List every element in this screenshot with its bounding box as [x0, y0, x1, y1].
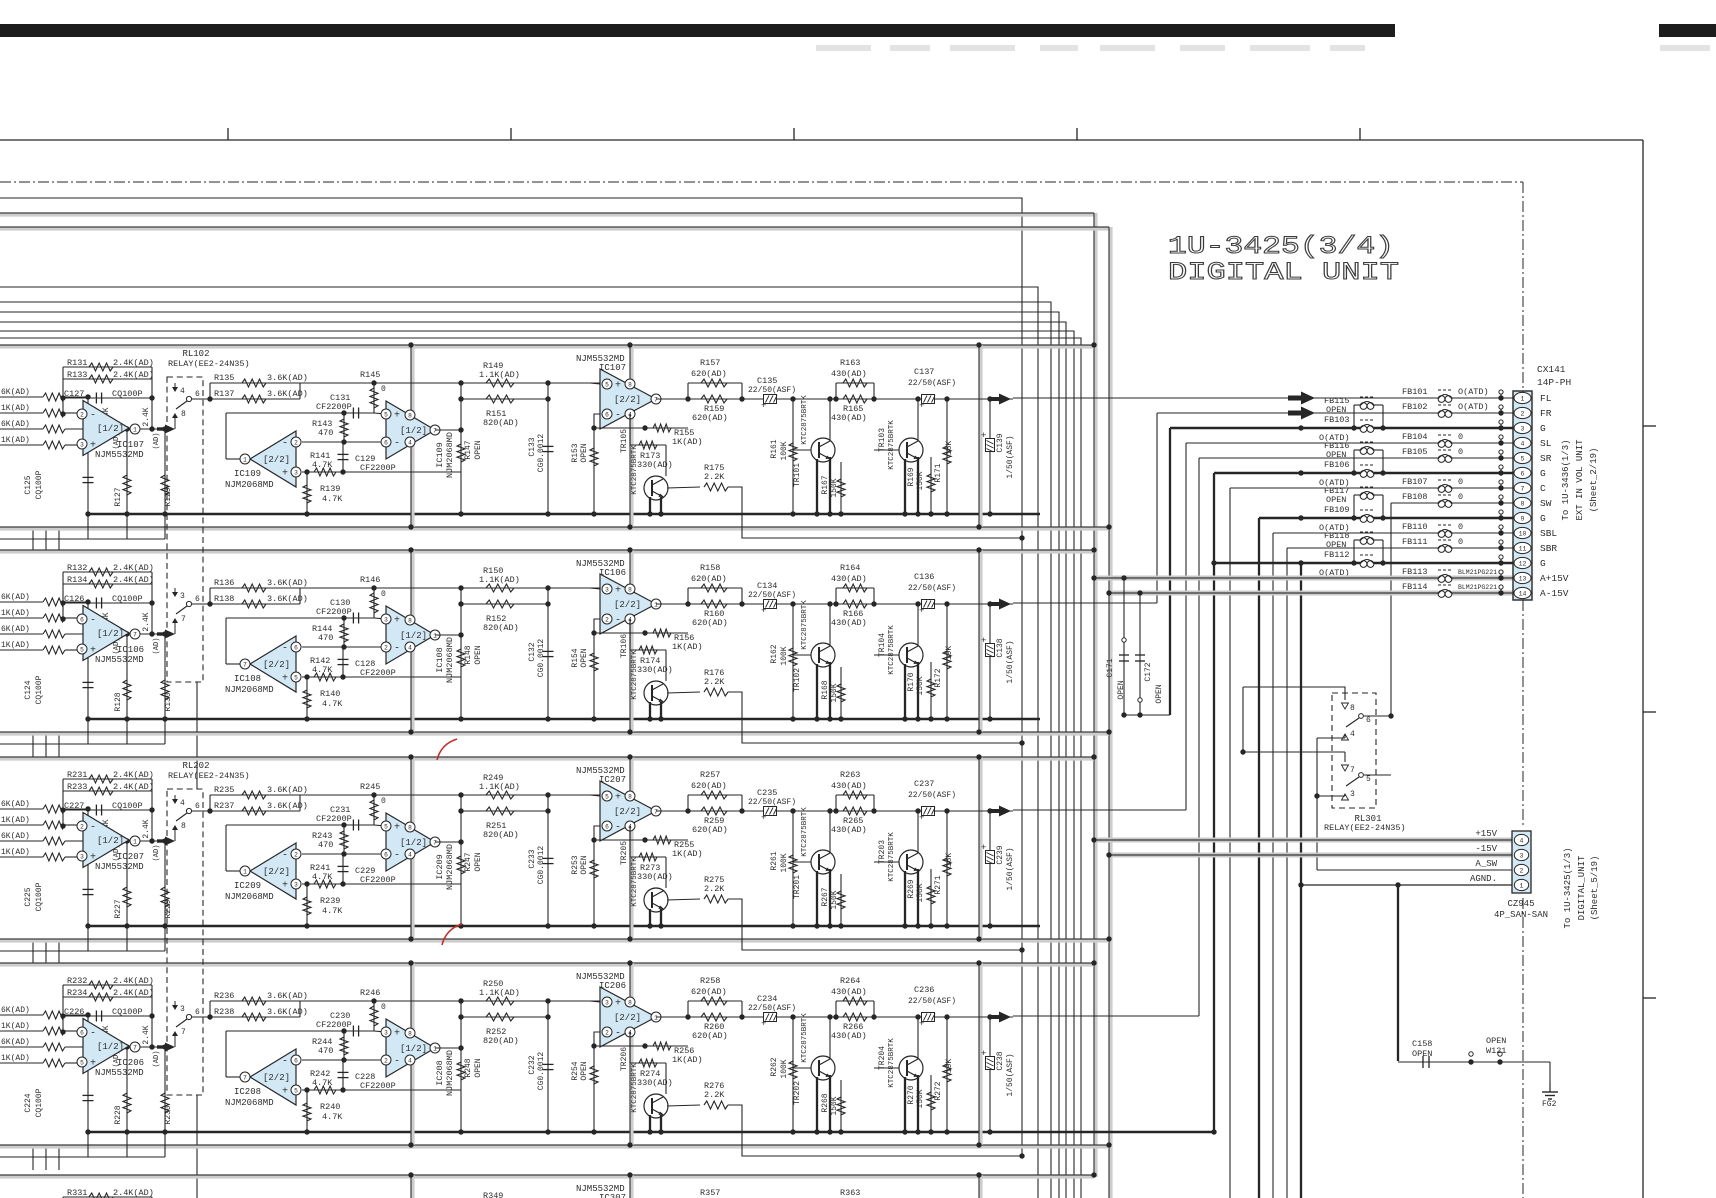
svg-text:+: + [615, 793, 621, 804]
svg-text:2.4K(AD): 2.4K(AD) [113, 976, 154, 986]
svg-text:(AD): (AD) [153, 845, 161, 862]
svg-text:R158: R158 [700, 563, 720, 573]
svg-text:1K(AD): 1K(AD) [1, 1054, 30, 1063]
svg-text:DIGITAL UNIT: DIGITAL UNIT [1168, 258, 1399, 287]
svg-text:4: 4 [180, 387, 185, 396]
svg-text:G: G [1540, 468, 1546, 479]
svg-text:2.4K: 2.4K [142, 407, 151, 426]
svg-text:OPEN: OPEN [474, 645, 483, 664]
svg-text:3.6K(AD): 3.6K(AD) [267, 594, 308, 604]
svg-text:3.6K(AD): 3.6K(AD) [267, 389, 308, 399]
svg-text:4.7K: 4.7K [312, 460, 333, 470]
svg-text:-: - [90, 1029, 96, 1040]
svg-text:330(AD): 330(AD) [637, 1078, 673, 1088]
svg-text:19K: 19K [945, 1059, 954, 1074]
svg-text:5: 5 [384, 411, 388, 418]
svg-text:1U-3425(3/4): 1U-3425(3/4) [1168, 232, 1394, 261]
svg-text:TR205: TR205 [620, 841, 629, 865]
svg-text:C171: C171 [1106, 658, 1115, 677]
svg-text:R137: R137 [214, 389, 234, 399]
svg-text:8: 8 [408, 412, 412, 419]
svg-text:22/50(ASF): 22/50(ASF) [908, 997, 956, 1006]
svg-text:2.4K: 2.4K [142, 612, 151, 631]
svg-text:FL: FL [1540, 393, 1552, 404]
svg-text:6: 6 [195, 1008, 200, 1017]
svg-text:R349: R349 [483, 1191, 503, 1198]
svg-text:OPEN: OPEN [1155, 684, 1164, 703]
svg-text:TR101: TR101 [793, 463, 802, 487]
svg-text:3: 3 [605, 586, 609, 593]
svg-text:620(AD): 620(AD) [691, 781, 727, 791]
svg-text:CF2200P: CF2200P [316, 607, 352, 617]
svg-text:IC209: IC209 [234, 881, 261, 891]
svg-text:G: G [1540, 513, 1546, 524]
svg-text:1.1K(AD): 1.1K(AD) [479, 988, 520, 998]
svg-text:+: + [761, 1019, 766, 1029]
svg-text:22/50(ASF): 22/50(ASF) [748, 386, 796, 395]
svg-text:(Sheet_2/19): (Sheet_2/19) [1589, 448, 1599, 513]
svg-text:0: 0 [1458, 477, 1463, 487]
svg-text:FB113: FB113 [1402, 567, 1428, 577]
svg-text:1.1K(AD): 1.1K(AD) [479, 782, 520, 792]
svg-text:3: 3 [1521, 426, 1525, 433]
svg-text:6: 6 [1366, 716, 1371, 725]
svg-text:R129: R129 [164, 487, 173, 506]
svg-text:2.4K(AD): 2.4K(AD) [113, 782, 154, 792]
svg-text:KTC2875BRTK: KTC2875BRTK [888, 1038, 896, 1088]
svg-text:SBL: SBL [1540, 528, 1557, 539]
svg-text:KTC2875BRTK: KTC2875BRTK [888, 832, 896, 882]
svg-text:470: 470 [318, 633, 333, 643]
svg-text:8: 8 [1521, 501, 1525, 508]
svg-text:R268: R268 [821, 1093, 830, 1112]
svg-text:R232: R232 [67, 976, 87, 986]
svg-text:IC108: IC108 [234, 674, 261, 684]
svg-text:TR206: TR206 [620, 1047, 629, 1071]
svg-text:R163: R163 [840, 358, 860, 368]
svg-text:FB106: FB106 [1324, 460, 1350, 470]
svg-text:+: + [919, 401, 924, 411]
svg-text:[2/2]: [2/2] [263, 1073, 290, 1083]
svg-text:R236: R236 [214, 991, 234, 1001]
svg-text:6K(AD): 6K(AD) [1, 625, 30, 634]
svg-text:430(AD): 430(AD) [831, 618, 867, 628]
svg-text:C172: C172 [1144, 662, 1153, 681]
svg-text:R272: R272 [934, 1081, 943, 1100]
svg-text:7: 7 [181, 615, 186, 624]
svg-text:+: + [919, 813, 924, 823]
svg-text:1/50(ASF): 1/50(ASF) [1006, 640, 1015, 683]
svg-text:1K(AD): 1K(AD) [1, 1022, 30, 1031]
svg-text:C224: C224 [24, 1093, 33, 1112]
svg-text:TR201: TR201 [793, 875, 802, 899]
svg-text:22/50(ASF): 22/50(ASF) [908, 791, 956, 800]
svg-text:[1/2]: [1/2] [97, 836, 124, 846]
svg-text:8: 8 [181, 822, 186, 831]
svg-text:CQ100P: CQ100P [112, 801, 143, 811]
svg-text:R162: R162 [770, 644, 779, 663]
svg-text:IC109: IC109 [234, 469, 261, 479]
svg-text:FB104: FB104 [1402, 432, 1428, 442]
svg-text:8: 8 [628, 793, 632, 800]
svg-text:OPEN: OPEN [1412, 1049, 1432, 1059]
svg-text:0: 0 [381, 797, 386, 806]
svg-text:R271: R271 [934, 875, 943, 894]
svg-text:A+15V: A+15V [1540, 573, 1569, 584]
svg-text:(Sheet_5/19): (Sheet_5/19) [1590, 856, 1600, 921]
svg-text:1: 1 [133, 426, 137, 433]
svg-text:9: 9 [1521, 516, 1525, 523]
svg-text:R171: R171 [934, 463, 943, 482]
svg-text:C226: C226 [64, 1007, 84, 1017]
svg-text:3: 3 [80, 441, 84, 448]
svg-text:FG2: FG2 [1542, 1100, 1557, 1109]
svg-text:C138: C138 [996, 638, 1005, 657]
svg-text:3: 3 [294, 469, 298, 476]
svg-text:4.7K: 4.7K [312, 665, 333, 675]
svg-text:-: - [90, 411, 96, 422]
svg-text:5: 5 [605, 381, 609, 388]
svg-text:150K: 150K [830, 1096, 839, 1115]
svg-text:6: 6 [294, 1057, 298, 1064]
svg-text:KTC2875BRTK: KTC2875BRTK [801, 395, 809, 445]
svg-text:5: 5 [80, 1059, 84, 1066]
svg-text:1: 1 [433, 632, 437, 639]
svg-text:12: 12 [1519, 561, 1527, 568]
svg-text:R134: R134 [67, 575, 87, 585]
svg-text:IC108: IC108 [435, 647, 445, 673]
svg-text:2.4K(AD): 2.4K(AD) [113, 563, 154, 573]
svg-text:C233: C233 [528, 849, 537, 868]
svg-text:6: 6 [384, 439, 388, 446]
svg-text:R267: R267 [821, 887, 830, 906]
svg-text:R172: R172 [934, 668, 943, 687]
svg-text:OPEN: OPEN [1326, 450, 1346, 460]
svg-text:430(AD): 430(AD) [831, 1031, 867, 1041]
svg-text:OPEN: OPEN [474, 1058, 483, 1077]
svg-text:620(AD): 620(AD) [692, 618, 728, 628]
svg-text:6: 6 [195, 390, 200, 399]
svg-text:O(ATD): O(ATD) [1458, 402, 1489, 412]
svg-text:OPEN: OPEN [1486, 1036, 1506, 1046]
svg-text:NJM5532MD: NJM5532MD [95, 1068, 144, 1078]
svg-text:1K(AD): 1K(AD) [1, 641, 30, 650]
svg-text:CF2200P: CF2200P [360, 875, 396, 885]
svg-text:[1/2]: [1/2] [400, 838, 427, 848]
svg-text:[1/2]: [1/2] [97, 629, 124, 639]
svg-text:FB110: FB110 [1402, 522, 1428, 532]
svg-text:[2/2]: [2/2] [614, 1013, 641, 1023]
svg-text:4: 4 [408, 644, 412, 651]
svg-text:C127: C127 [64, 389, 84, 399]
svg-text:22/50(ASF): 22/50(ASF) [748, 1004, 796, 1013]
svg-text:-: - [394, 851, 400, 862]
svg-text:7: 7 [654, 396, 658, 403]
svg-text:+: + [282, 674, 288, 685]
svg-text:+: + [394, 823, 400, 834]
svg-text:100K: 100K [780, 646, 789, 665]
svg-text:330(AD): 330(AD) [637, 460, 673, 470]
svg-text:R127: R127 [114, 487, 123, 506]
svg-text:2.4K(AD): 2.4K(AD) [113, 988, 154, 998]
svg-text:FB107: FB107 [1402, 477, 1428, 487]
svg-text:IC106: IC106 [117, 645, 144, 655]
svg-text:FB105: FB105 [1402, 447, 1428, 457]
svg-text:820(AD): 820(AD) [483, 418, 519, 428]
svg-text:[1/2]: [1/2] [97, 1042, 124, 1052]
svg-text:4.7K: 4.7K [312, 1078, 333, 1088]
svg-text:6: 6 [294, 644, 298, 651]
svg-text:C135: C135 [757, 376, 777, 386]
svg-text:NJM2068MD: NJM2068MD [225, 892, 274, 902]
svg-text:5: 5 [80, 646, 84, 653]
svg-text:+: + [282, 469, 288, 480]
svg-text:R240: R240 [320, 1102, 340, 1112]
svg-text:CF2200P: CF2200P [316, 814, 352, 824]
svg-text:5: 5 [294, 1087, 298, 1094]
svg-text:R132: R132 [67, 563, 87, 573]
svg-text:TR106: TR106 [620, 634, 629, 658]
svg-text:150K: 150K [916, 676, 925, 695]
svg-text:R237: R237 [214, 801, 234, 811]
svg-text:R169: R169 [907, 467, 916, 486]
svg-text:C237: C237 [914, 779, 934, 789]
svg-text:4.7K: 4.7K [322, 494, 343, 504]
svg-text:2.4K: 2.4K [142, 819, 151, 838]
svg-text:7: 7 [433, 427, 437, 434]
svg-text:CF2200P: CF2200P [360, 463, 396, 473]
svg-text:AGND.: AGND. [1470, 874, 1497, 884]
svg-text:[2/2]: [2/2] [614, 600, 641, 610]
svg-text:TR203: TR203 [878, 840, 887, 864]
svg-text:R258: R258 [700, 976, 720, 986]
svg-text:1: 1 [433, 1045, 437, 1052]
svg-text:-: - [394, 1057, 400, 1068]
svg-text:7: 7 [654, 808, 658, 815]
svg-text:[2/2]: [2/2] [263, 455, 290, 465]
svg-text:R230: R230 [164, 1105, 173, 1124]
svg-text:3: 3 [1520, 853, 1524, 860]
svg-text:CZ945: CZ945 [1507, 899, 1534, 909]
svg-text:4: 4 [180, 799, 185, 808]
svg-text:1.1K(AD): 1.1K(AD) [479, 575, 520, 585]
svg-text:-: - [282, 644, 288, 655]
svg-text:IC206: IC206 [117, 1058, 144, 1068]
svg-text:OPEN: OPEN [580, 855, 589, 874]
svg-text:3: 3 [80, 853, 84, 860]
svg-text:330(AD): 330(AD) [637, 665, 673, 675]
svg-text:+: + [761, 606, 766, 616]
svg-text:-: - [615, 411, 621, 422]
svg-text:-: - [615, 823, 621, 834]
svg-text:+: + [615, 999, 621, 1010]
svg-text:2: 2 [80, 823, 84, 830]
svg-text:NJM5532MD: NJM5532MD [95, 862, 144, 872]
svg-text:6K(AD): 6K(AD) [1, 593, 30, 602]
svg-text:+: + [981, 843, 986, 853]
svg-text:IC207: IC207 [117, 852, 144, 862]
svg-text:100K: 100K [780, 1059, 789, 1078]
svg-text:R157: R157 [700, 358, 720, 368]
svg-text:150K: 150K [916, 471, 925, 490]
svg-text:0: 0 [381, 385, 386, 394]
svg-text:[1/2]: [1/2] [400, 1044, 427, 1054]
svg-text:[1/2]: [1/2] [400, 631, 427, 641]
svg-text:CG0.0012: CG0.0012 [537, 639, 546, 678]
svg-text:FB101: FB101 [1402, 387, 1428, 397]
svg-text:W121: W121 [1486, 1046, 1506, 1056]
svg-text:C225: C225 [24, 887, 33, 906]
svg-text:-: - [615, 616, 621, 627]
svg-text:[2/2]: [2/2] [614, 807, 641, 817]
svg-text:6: 6 [195, 595, 200, 604]
svg-text:8: 8 [181, 410, 186, 419]
svg-text:CQ100P: CQ100P [112, 1007, 143, 1017]
svg-text:8: 8 [1350, 704, 1355, 713]
svg-text:OPEN: OPEN [580, 1061, 589, 1080]
svg-text:R167: R167 [821, 475, 830, 494]
svg-text:+: + [394, 1029, 400, 1040]
svg-text:1/50(ASF): 1/50(ASF) [1006, 1053, 1015, 1096]
svg-text:R164: R164 [840, 563, 860, 573]
svg-text:TR103: TR103 [878, 428, 887, 452]
svg-text:10: 10 [1519, 531, 1527, 538]
svg-text:620(AD): 620(AD) [691, 574, 727, 584]
svg-text:2.4K(AD): 2.4K(AD) [113, 575, 154, 585]
svg-text:CQ100P: CQ100P [35, 882, 44, 911]
svg-text:330(AD): 330(AD) [637, 872, 673, 882]
svg-text:IC307: IC307 [599, 1193, 626, 1198]
svg-text:100K: 100K [780, 441, 789, 460]
svg-text:R246: R246 [360, 988, 380, 998]
svg-text:2.4K(AD): 2.4K(AD) [113, 1188, 154, 1198]
svg-text:2: 2 [80, 411, 84, 418]
svg-text:5: 5 [294, 674, 298, 681]
svg-text:C236: C236 [914, 985, 934, 995]
svg-text:(AD): (AD) [153, 1051, 161, 1068]
svg-text:7: 7 [133, 1044, 137, 1051]
svg-text:C125: C125 [24, 475, 33, 494]
svg-text:-: - [90, 616, 96, 627]
svg-text:R148: R148 [464, 645, 473, 664]
svg-text:4.7K: 4.7K [322, 1112, 343, 1122]
svg-text:C238: C238 [996, 1051, 1005, 1070]
svg-text:SL: SL [1540, 438, 1552, 449]
svg-text:150K: 150K [830, 890, 839, 909]
svg-text:0: 0 [1458, 447, 1463, 457]
svg-text:NJM2068MD: NJM2068MD [225, 480, 274, 490]
svg-text:3: 3 [384, 1029, 388, 1036]
svg-text:TR202: TR202 [793, 1081, 802, 1105]
svg-text:2: 2 [384, 644, 388, 651]
svg-text:8: 8 [408, 617, 412, 624]
svg-text:IC209: IC209 [435, 854, 445, 880]
svg-text:RELAY(EE2-24N35): RELAY(EE2-24N35) [168, 771, 250, 781]
svg-text:1: 1 [243, 868, 247, 875]
svg-text:1K(AD): 1K(AD) [672, 437, 703, 447]
svg-text:1K(AD): 1K(AD) [1, 848, 30, 857]
svg-text:CG0.0012: CG0.0012 [537, 434, 546, 473]
svg-text:8: 8 [628, 586, 632, 593]
svg-text:2: 2 [605, 1029, 609, 1036]
svg-text:+: + [919, 1019, 924, 1029]
svg-text:470: 470 [318, 1046, 333, 1056]
svg-text:3.6K(AD): 3.6K(AD) [267, 373, 308, 383]
svg-text:R269: R269 [907, 879, 916, 898]
svg-text:R238: R238 [214, 1007, 234, 1017]
svg-text:22/50(ASF): 22/50(ASF) [908, 379, 956, 388]
svg-text:-15V: -15V [1475, 844, 1497, 854]
svg-text:C: C [1540, 483, 1546, 494]
svg-text:R239: R239 [320, 896, 340, 906]
svg-text:A-15V: A-15V [1540, 588, 1569, 599]
svg-text:6K(AD): 6K(AD) [1, 420, 30, 429]
svg-text:DIGITAL_UNIT: DIGITAL_UNIT [1577, 855, 1587, 920]
svg-text:0: 0 [381, 590, 386, 599]
svg-text:150K: 150K [916, 883, 925, 902]
svg-text:R135: R135 [214, 373, 234, 383]
svg-text:C132: C132 [528, 642, 537, 661]
svg-text:11: 11 [1519, 546, 1527, 553]
svg-text:FB108: FB108 [1402, 492, 1428, 502]
svg-text:R270: R270 [907, 1085, 916, 1104]
svg-text:7: 7 [433, 839, 437, 846]
svg-text:CX141: CX141 [1537, 364, 1566, 375]
svg-text:4: 4 [1521, 441, 1525, 448]
svg-text:3: 3 [180, 1005, 185, 1014]
svg-text:To 1U-3436(1/3): To 1U-3436(1/3) [1561, 439, 1571, 520]
svg-text:[2/2]: [2/2] [614, 395, 641, 405]
svg-text:CF2200P: CF2200P [316, 1020, 352, 1030]
svg-text:6: 6 [605, 823, 609, 830]
svg-text:IC109: IC109 [435, 442, 445, 468]
svg-text:R263: R263 [840, 770, 860, 780]
svg-text:6: 6 [80, 616, 84, 623]
svg-text:R247: R247 [464, 852, 473, 871]
svg-text:1K(AD): 1K(AD) [1, 816, 30, 825]
svg-text:19K: 19K [945, 646, 954, 661]
svg-text:14: 14 [1519, 591, 1527, 598]
svg-text:6: 6 [1521, 471, 1525, 478]
svg-text:R154: R154 [571, 648, 580, 667]
svg-text:(AD): (AD) [153, 433, 161, 450]
svg-text:4.7K: 4.7K [322, 699, 343, 709]
svg-text:7: 7 [243, 661, 247, 668]
svg-text:R136: R136 [214, 578, 234, 588]
svg-text:R357: R357 [700, 1188, 720, 1198]
svg-text:NJM2068MD: NJM2068MD [225, 1098, 274, 1108]
svg-text:18K: 18K [945, 441, 954, 456]
svg-text:7: 7 [181, 1028, 186, 1037]
svg-text:R254: R254 [571, 1061, 580, 1080]
svg-text:OPEN: OPEN [580, 443, 589, 462]
svg-text:1K(AD): 1K(AD) [1, 404, 30, 413]
svg-text:2: 2 [1521, 411, 1525, 418]
svg-text:1K(AD): 1K(AD) [1, 436, 30, 445]
svg-text:R130: R130 [164, 692, 173, 711]
svg-text:7: 7 [1350, 766, 1355, 775]
svg-text:430(AD): 430(AD) [831, 825, 867, 835]
svg-text:CF2200P: CF2200P [360, 1081, 396, 1091]
svg-text:KTC2875BRTK: KTC2875BRTK [631, 1063, 639, 1113]
svg-text:3: 3 [1350, 790, 1355, 799]
svg-text:3: 3 [294, 881, 298, 888]
svg-text:2.4K(AD): 2.4K(AD) [113, 770, 154, 780]
svg-text:KTC2875BRTK: KTC2875BRTK [631, 857, 639, 907]
svg-text:NJM5532MD: NJM5532MD [95, 450, 144, 460]
svg-text:1K(AD): 1K(AD) [672, 642, 703, 652]
svg-text:FB114: FB114 [1402, 582, 1428, 592]
